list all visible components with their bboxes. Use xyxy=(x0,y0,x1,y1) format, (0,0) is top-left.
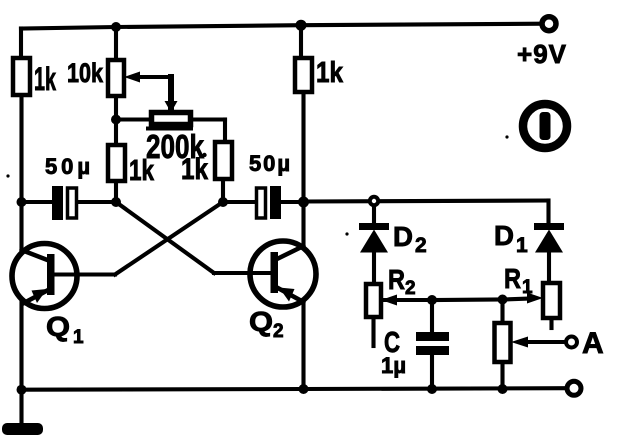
svg-text:50µ: 50µ xyxy=(45,154,90,179)
svg-text:2: 2 xyxy=(415,234,427,257)
svg-text:2: 2 xyxy=(405,278,416,299)
svg-text:R: R xyxy=(388,264,405,295)
svg-text:Q: Q xyxy=(249,306,273,337)
svg-text:A: A xyxy=(582,327,604,360)
svg-text:1: 1 xyxy=(516,234,528,257)
svg-text:1k: 1k xyxy=(34,61,56,97)
svg-text:D: D xyxy=(494,220,514,251)
svg-text:1: 1 xyxy=(522,277,533,298)
svg-text:200k: 200k xyxy=(146,128,205,165)
svg-text:50µ: 50µ xyxy=(249,151,290,176)
svg-text:R: R xyxy=(504,263,521,294)
svg-text:1k: 1k xyxy=(316,57,344,89)
svg-text:10k: 10k xyxy=(67,58,104,88)
svg-text:Q: Q xyxy=(46,311,70,342)
svg-text:D: D xyxy=(393,221,413,252)
svg-text:1µ: 1µ xyxy=(381,353,406,378)
svg-text:1: 1 xyxy=(73,327,84,348)
svg-text:2: 2 xyxy=(273,321,284,342)
svg-text:+9V: +9V xyxy=(517,39,567,69)
